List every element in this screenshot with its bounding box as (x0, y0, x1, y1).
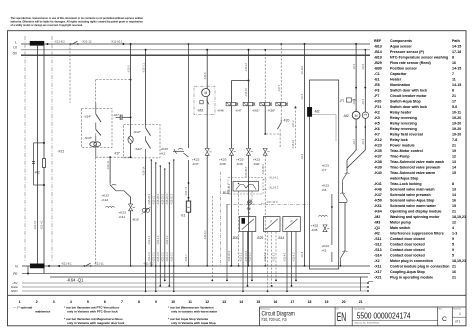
svg-text:-X15-13: -X15-13 (245, 62, 248, 72)
svg-text:-B13: -B13 (374, 44, 382, 48)
R2 branch left wire (33, 143, 35, 185)
svg-text:-X17: -X17 (374, 270, 382, 274)
dashed wire x295.4 coupling (294, 107, 296, 148)
bus line PE (22, 273, 370, 275)
bundle top ticks (151, 159, 153, 161)
svg-text:-X15-7: -X15-7 (185, 254, 188, 262)
svg-text:GND: GND (11, 289, 19, 293)
thermal protector in pump (200, 101, 203, 104)
svg-text:16: 16 (274, 300, 278, 304)
svg-text:-B30: -B30 (232, 236, 239, 240)
inner junction (331, 194, 333, 207)
B14 wires down (286, 232, 288, 292)
svg-text:Material No. 9000096942: Material No. 9000096942 (355, 322, 380, 325)
svg-text:-X2-1: -X2-1 (353, 63, 356, 70)
svg-text:12: 12 (452, 154, 456, 158)
wire valve K46 from bus (231, 81, 233, 103)
svg-text:-K64: -K64 (374, 209, 382, 213)
svg-text:9: 9 (155, 300, 157, 304)
svg-text:Switch-Aqua Stop: Switch-Aqua Stop (390, 99, 422, 103)
B30 wires down (242, 232, 244, 292)
svg-text:-K6: -K6 (322, 188, 327, 192)
motor M2 main circle (352, 111, 360, 119)
PTC heater element double oval (90, 142, 97, 147)
module boundary dash-dot horizontal y204.3 (227, 203, 310, 205)
svg-text:-X2-5: -X2-5 (301, 93, 304, 100)
triac K38 symbol (229, 148, 233, 155)
svg-text:-R2: -R2 (34, 171, 40, 175)
bus line -5V (21, 54, 370, 56)
svg-text:-K40: -K40 (253, 162, 260, 166)
svg-text:Power module: Power module (390, 143, 415, 147)
motor wire right x365.3 (364, 50, 366, 112)
svg-text:-B19: -B19 (132, 217, 139, 221)
wire from choke down (x37.5) (37, 44, 39, 266)
svg-text:-E1: -E1 (374, 77, 380, 81)
svg-text:-K61*: -K61* (252, 108, 261, 112)
svg-text:21: 21 (452, 275, 456, 279)
svg-text:-X21-11: -X21-11 (94, 261, 104, 265)
svg-text:12: 12 (452, 220, 456, 224)
svg-text:Coupling-Aqua Stop: Coupling-Aqua Stop (390, 270, 426, 274)
svg-text:-K46: -K46 (374, 187, 382, 191)
svg-text:-K41: -K41 (374, 182, 382, 186)
svg-text:-B29: -B29 (257, 236, 264, 240)
svg-text:-K2: -K2 (374, 110, 380, 114)
pressure sensor B14 box (283, 217, 301, 232)
svg-text:-X11-3.2: -X11-3.2 (264, 252, 267, 262)
bus line L0 (21, 49, 370, 51)
svg-text:-X2-6: -X2-6 (301, 153, 304, 160)
svg-text:18,19,21: 18,19,21 (452, 259, 466, 263)
solenoid valve -K50* symbol (276, 102, 280, 105)
svg-text:-K50: -K50 (374, 198, 382, 202)
svg-text:P: P (291, 220, 293, 224)
svg-text:Contact door closed: Contact door closed (390, 237, 425, 241)
column number row (19, 300, 363, 304)
svg-text:-X15-25.3: -X15-25.3 (162, 193, 165, 205)
svg-text:7: 7 (452, 72, 454, 76)
dashed wire from bus to S14 (x70) (69, 44, 71, 103)
crossing wires into relay contacts (347, 150, 356, 160)
svg-text:Motor plug in connection: Motor plug in connection (390, 259, 433, 263)
motor pump M3 circle (202, 89, 210, 97)
R2 module boundary dash-dot line right (51, 36, 53, 262)
wire x304.5 from bus L down (304, 44, 306, 266)
svg-text:--- / * optional: --- / * optional (13, 306, 32, 310)
svg-text:19: 19 (325, 300, 329, 304)
svg-text:15: 15 (452, 171, 456, 175)
svg-text:-X11: -X11 (374, 264, 381, 268)
svg-text:Triac-Solenoid valve prewash: Triac-Solenoid valve prewash (390, 165, 440, 169)
E8 wire below (249, 205, 251, 217)
motor M2 aux circle (362, 112, 368, 118)
svg-text:13: 13 (452, 187, 456, 191)
svg-text:15: 15 (256, 300, 260, 304)
svg-text:7: 7 (121, 300, 123, 304)
svg-text:-X2-18.1: -X2-18.1 (301, 65, 304, 75)
svg-text:14: 14 (452, 165, 456, 169)
svg-text:Triac-Lock locking: Triac-Lock locking (390, 182, 422, 186)
wires below motor circles (355, 119, 357, 150)
svg-text:-X17-2: -X17-2 (292, 120, 295, 128)
svg-text:-X21-4.2: -X21-4.2 (41, 220, 44, 230)
component list table (374, 39, 466, 279)
svg-text:-X2-7: -X2-7 (353, 138, 356, 145)
svg-text:-X15-6: -X15-6 (204, 72, 207, 80)
svg-text:21: 21 (452, 143, 456, 147)
svg-text:-X11-3.2: -X11-3.2 (143, 261, 154, 265)
svg-text:-K40: -K40 (374, 171, 382, 175)
svg-text:-X21-12: -X21-12 (82, 39, 92, 43)
svg-text:-X15-21: -X15-21 (153, 195, 156, 205)
switch S11 (146, 141, 151, 149)
svg-text:-K5: -K5 (322, 248, 327, 252)
illumination E8 lamp (248, 200, 252, 204)
R2 branch bottom wire (34, 184, 45, 186)
wire below K5 to N bus (340, 261, 342, 266)
svg-text:-X15-11: -X15-11 (106, 160, 110, 170)
svg-text:-X2: -X2 (374, 259, 380, 263)
svg-text:Control module plug in connect: Control module plug in connection (390, 264, 450, 268)
svg-text:-K50*: -K50* (268, 108, 277, 112)
svg-text:-X15-5: -X15-5 (126, 65, 130, 73)
svg-text:-X15-36.2: -X15-36.2 (262, 163, 265, 175)
svg-text:-K37: -K37 (374, 154, 382, 158)
svg-text:5: 5 (87, 300, 89, 304)
svg-text:Triac-Solenoid valve main wash: Triac-Solenoid valve main wash (390, 160, 444, 164)
svg-text:-X11-1.3: -X11-1.3 (157, 235, 160, 245)
svg-text:Relay reversing: Relay reversing (390, 121, 417, 125)
svg-text:C: C (442, 316, 447, 323)
wire C1 drop x130.6 (130, 44, 132, 136)
wire valve K61 from bus dashed (264, 50, 266, 103)
svg-text:Motor pump: Motor pump (390, 220, 412, 224)
svg-text:Relay field reversal: Relay field reversal (390, 132, 423, 136)
svg-text:21: 21 (452, 209, 456, 213)
svg-text:-B14: -B14 (374, 50, 382, 54)
wire below heater (188, 212, 190, 266)
aqua sensor B13 box (233, 182, 259, 192)
svg-text:-M3: -M3 (374, 220, 380, 224)
svg-text:Components: Components (390, 39, 412, 43)
svg-text:-K39: -K39 (374, 165, 382, 169)
triac K37 symbol (205, 149, 209, 156)
svg-text:14: 14 (239, 300, 243, 304)
svg-text:-K6: -K6 (374, 127, 380, 131)
B13 wires down (238, 191, 240, 266)
svg-text:-X15-28.1: -X15-28.1 (148, 193, 151, 205)
motor wire left x356.1 (355, 44, 357, 111)
svg-text:17: 17 (452, 99, 456, 103)
svg-text:-X15-14: -X15-14 (292, 139, 295, 149)
svg-text:13: 13 (222, 300, 226, 304)
svg-text:-X11-1.1: -X11-1.1 (148, 235, 151, 245)
switch F20 aqua stop on K50 wire (280, 106, 282, 120)
bus line N (22, 265, 370, 267)
svg-text:Solenoid valve prewash: Solenoid valve prewash (390, 193, 431, 197)
relay K2 contact (173, 150, 184, 152)
switch S14 (96, 114, 101, 122)
svg-text:-X21-8.1: -X21-8.1 (61, 261, 72, 265)
svg-text:-K37: -K37 (192, 162, 199, 166)
link K7 to K6 (342, 183, 344, 191)
filter choke R2 block (filled) (30, 41, 44, 45)
wire from B19 down (130, 211, 132, 266)
dashed wire door area to N bus (95, 157, 97, 266)
svg-text:-X11-6.1: -X11-6.1 (269, 176, 279, 180)
svg-text:-X11-4.3: -X11-4.3 (293, 252, 296, 262)
svg-text:13: 13 (452, 160, 456, 164)
svg-text:Relay lock: Relay lock (390, 138, 408, 142)
svg-text:8: 8 (138, 300, 140, 304)
svg-text:-S14: -S14 (374, 253, 382, 257)
svg-text:-K3: -K3 (374, 116, 380, 120)
PTC door lock dashed box (S14 S13) (82, 109, 113, 148)
svg-text:-S11: -S11 (374, 237, 381, 241)
svg-text:-S12*: -S12* (133, 130, 142, 134)
svg-text:Capacitor: Capacitor (390, 72, 407, 76)
svg-text:-X2-2: -X2-2 (362, 98, 365, 105)
svg-text:-F20: -F20 (283, 118, 290, 122)
svg-text:-K47: -K47 (235, 108, 242, 112)
svg-text:-B30: -B30 (374, 66, 382, 70)
svg-text:17-18: 17-18 (452, 50, 461, 54)
link into box from K6 (339, 202, 347, 204)
svg-text:-C1: -C1 (374, 72, 380, 76)
svg-text:-X21-2.2: -X21-2.2 (162, 252, 165, 262)
svg-text:Illumination: Illumination (390, 83, 410, 87)
svg-text:Aqua sensor: Aqua sensor (390, 44, 412, 48)
svg-text:Heater: Heater (390, 77, 402, 81)
svg-text:M: M (204, 91, 207, 95)
svg-text:Position sensor: Position sensor (390, 66, 418, 70)
svg-text:3: 3 (53, 300, 55, 304)
svg-text:Relay reversing: Relay reversing (390, 127, 417, 131)
svg-text:Contact door locked: Contact door locked (390, 242, 425, 246)
svg-text:M: M (355, 114, 358, 118)
module boundary dash-dot vertical x220.3 (219, 172, 221, 265)
svg-text:-C1*: -C1* (113, 113, 120, 117)
dashed connection corner x95.7 (96, 79, 131, 81)
dashed wire continues to sensor area (279, 134, 281, 148)
svg-text:19-20: 19-20 (452, 121, 461, 125)
copyright notice text (11, 17, 144, 27)
svg-text:5-6: 5-6 (452, 105, 457, 109)
svg-text:19-20: 19-20 (452, 127, 461, 131)
triac K40 symbol (263, 148, 267, 155)
svg-text:5500 0000024174: 5500 0000024174 (357, 311, 412, 321)
svg-text:wahlweise: wahlweise (34, 310, 50, 314)
NTC sensor B19 symbol (142, 208, 146, 212)
svg-text:-X15-20.3: -X15-20.3 (228, 250, 231, 262)
svg-text:-Q1: -Q1 (374, 226, 380, 230)
triac K41 symbol (129, 204, 133, 211)
svg-text:1: 1 (459, 312, 461, 316)
svg-text:Path: Path (452, 39, 460, 43)
wires triacs down (231, 155, 233, 266)
svg-text:-S12: -S12 (374, 242, 382, 246)
svg-text:Triac-Pump: Triac-Pump (390, 154, 410, 158)
svg-text:-K64 -Q1: -K64 -Q1 (67, 278, 85, 283)
wire junction to K12 (109, 157, 111, 183)
svg-text:water/Aqua Stop: water/Aqua Stop (389, 176, 419, 180)
svg-text:-X21-2.3: -X21-2.3 (166, 252, 169, 262)
svg-text:8: 8 (452, 182, 454, 186)
svg-text:18,19,21: 18,19,21 (452, 215, 466, 219)
svg-text:4: 4 (452, 226, 454, 230)
svg-text:-E8: -E8 (246, 206, 251, 210)
extra module wires down to module lines (211, 196, 213, 280)
wire below S12 to junction (130, 143, 132, 157)
svg-text:12: 12 (205, 300, 209, 304)
svg-text:PE: PE (13, 272, 17, 276)
switch S12 (145, 124, 147, 128)
svg-text:-X15-22.2: -X15-22.2 (166, 193, 169, 205)
svg-text:14-15: 14-15 (452, 83, 461, 87)
dashed link K50 to K61 wire (266, 133, 280, 135)
wire bundle to connector X11 (8 wires) (150, 160, 152, 266)
junction dots on bus lines (122, 43, 124, 45)
svg-text:-K39: -K39 (236, 162, 243, 166)
svg-text:7-8: 7-8 (452, 138, 457, 142)
svg-text:-F3*: -F3* (114, 152, 121, 156)
F7 symbol (346, 98, 351, 102)
connector X21 drop at col21 (360, 277, 362, 291)
svg-text:-F3: -F3 (374, 88, 379, 92)
position sensor B30 box (239, 217, 256, 232)
svg-text:Sheet No.: Sheet No. (453, 308, 461, 311)
svg-text:9: 9 (452, 248, 454, 252)
svg-text:-X15-28.3: -X15-28.3 (157, 193, 160, 205)
leader line to X11 list row (368, 280, 373, 282)
svg-text:11: 11 (188, 300, 192, 304)
triac K39 symbol (246, 148, 250, 155)
svg-text:5: 5 (452, 253, 454, 257)
wire K6 down to K5 (344, 203, 346, 250)
svg-text:Triac-Solenoid valve warm: Triac-Solenoid valve warm (390, 171, 435, 175)
bus line L (21, 43, 370, 45)
svg-text:-S11*: -S11* (135, 147, 143, 151)
coil symbol K35 drive (319, 215, 328, 216)
svg-text:-K35: -K35 (374, 149, 382, 153)
svg-text:1: 1 (19, 300, 21, 304)
svg-text:-X17-12.3: -X17-12.3 (266, 200, 278, 204)
svg-text:-X17-1: -X17-1 (278, 84, 281, 92)
svg-text:20: 20 (342, 300, 346, 304)
svg-text:-K38: -K38 (374, 160, 382, 164)
svg-text:-X16-1A: -X16-1A (141, 166, 145, 176)
svg-text:-X11-3.3: -X11-3.3 (273, 252, 276, 262)
svg-text:-K35: -K35 (311, 228, 318, 232)
title block frame (260, 306, 467, 308)
svg-text:10: 10 (171, 300, 175, 304)
wire valve K50 from bus dashed (280, 44, 282, 102)
svg-text:-M2: -M2 (374, 215, 380, 219)
K12 coil symbol (106, 206, 115, 207)
svg-text:of a utility model or design a: of a utility model or design are reserve… (11, 24, 84, 27)
svg-text:-X15-38.3: -X15-38.3 (245, 166, 248, 178)
wire below S11 down (145, 157, 147, 291)
svg-text:Relay reversing: Relay reversing (390, 116, 417, 120)
svg-text:17: 17 (291, 300, 295, 304)
switch S13 (96, 130, 101, 136)
svg-text:Switch door with lock: Switch door with lock (390, 88, 427, 92)
R2 module boundary dash-dot line left (24, 36, 26, 262)
svg-text:Rev.: Rev. (439, 309, 443, 311)
svg-text:-X15-2.3: -X15-2.3 (157, 252, 160, 262)
svg-text:NTC-Temperature sensor washing: NTC-Temperature sensor washing (390, 55, 448, 59)
svg-text:Pressure sensor (P): Pressure sensor (P) (390, 50, 425, 54)
svg-text:11: 11 (452, 77, 456, 81)
svg-text:EN: EN (337, 311, 347, 324)
svg-text:14-15: 14-15 (452, 66, 461, 70)
svg-text:L: L (15, 40, 17, 44)
wire x145.6 from bus L0 (145, 50, 147, 125)
svg-text:21: 21 (452, 264, 456, 268)
svg-text:14: 14 (452, 193, 456, 197)
svg-text:-M2: -M2 (314, 110, 320, 114)
wires below valves (231, 106, 233, 149)
junction dot after choke (47, 43, 49, 45)
svg-text:-S14*: -S14* (84, 114, 93, 118)
svg-text:-F21: -F21 (374, 105, 381, 109)
svg-text:-B19: -B19 (374, 55, 382, 59)
svg-text:-K23: -K23 (374, 143, 382, 147)
svg-text:Circuit Diagram: Circuit Diagram (262, 311, 296, 318)
svg-text:-K12: -K12 (374, 138, 382, 142)
svg-text:-M3: -M3 (197, 109, 203, 113)
svg-text:-K47: -K47 (374, 193, 382, 197)
svg-text:-K12: -K12 (102, 198, 109, 202)
svg-text:-X21-8.2: -X21-8.2 (54, 39, 65, 43)
resistor of R2 filter (43, 159, 46, 168)
PE junction dot (27, 273, 29, 275)
svg-text:2: 2 (36, 300, 38, 304)
triac K35 symbol (323, 225, 327, 232)
svg-text:-K5: -K5 (374, 121, 380, 125)
svg-text:21: 21 (452, 94, 456, 98)
svg-text:19: 19 (452, 149, 456, 153)
svg-text:-X15-2.1: -X15-2.1 (171, 252, 174, 262)
svg-text:9: 9 (452, 237, 454, 241)
svg-text:1-3: 1-3 (452, 231, 457, 235)
dots on N line for component wires (130, 265, 132, 267)
svg-text:-B29: -B29 (374, 61, 382, 65)
switch Q1 lower contact (83, 265, 85, 267)
svg-text:-X15-6.1: -X15-6.1 (204, 230, 207, 240)
dashed link door area bottom (95, 134, 97, 158)
flow rate sensor B29 box (264, 217, 281, 232)
wire from K2 to heater E1 (188, 44, 190, 148)
svg-text:-X2-3: -X2-3 (362, 63, 365, 70)
svg-text:-X15-1.1: -X15-1.1 (141, 62, 145, 73)
capacitor C1 (119, 115, 121, 121)
svg-text:5: 5 (452, 242, 454, 246)
wire from bus down (x44) (43, 44, 45, 274)
svg-text:-X21-5.1: -X21-5.1 (34, 220, 37, 230)
svg-text:-X11-4.1: -X11-4.1 (284, 252, 287, 262)
relay K12 contact (109, 183, 111, 185)
svg-text:-K7: -K7 (374, 132, 380, 136)
svg-text:14-15: 14-15 (452, 44, 461, 48)
svg-text:18: 18 (308, 300, 312, 304)
svg-text:F: F (271, 220, 273, 224)
svg-text:-M2: -M2 (343, 114, 349, 118)
svg-text:-E1: -E1 (181, 214, 186, 218)
svg-text:-5V: -5V (12, 51, 18, 55)
svg-text:-F7: -F7 (374, 94, 379, 98)
